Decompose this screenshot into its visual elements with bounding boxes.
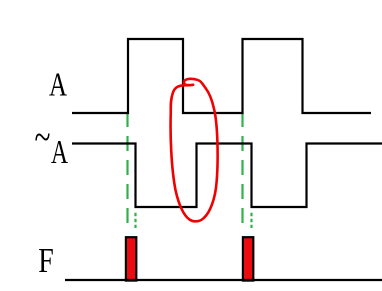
green dotted line t2' (~A falling edge 2) <box>250 213 252 228</box>
svg-text:F: F <box>38 241 54 280</box>
waveform A <box>72 39 371 113</box>
svg-text:A: A <box>49 67 67 104</box>
signal label F <box>38 241 54 280</box>
signal label A <box>49 67 67 104</box>
svg-text:~: ~ <box>35 115 51 160</box>
green dashed line t2 (A rising edge 2) <box>241 112 243 223</box>
green dotted line t1' (~A falling edge 1) <box>134 213 136 228</box>
green dashed line t1 (A rising edge 1) <box>126 112 128 223</box>
signal label ~A : tilde <box>35 115 51 160</box>
glitch pulse F1 <box>126 237 136 280</box>
waveform F baseline <box>65 279 382 281</box>
waveform ~A <box>72 144 382 208</box>
signal label ~A : A <box>51 134 68 171</box>
svg-text:A: A <box>51 134 68 171</box>
glitch pulse F2 <box>243 237 253 280</box>
red ellipse annotation <box>171 79 218 222</box>
